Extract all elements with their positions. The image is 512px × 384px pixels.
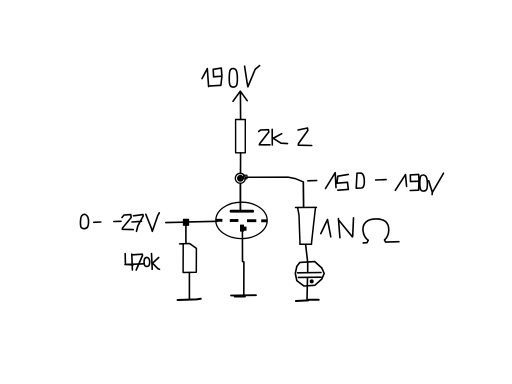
wire R3 to capacitor C1 [306, 244, 308, 261]
wire node down to R2 [185, 225, 187, 243]
label 1M ohm [321, 218, 399, 243]
wire anode node to output branch [246, 177, 303, 181]
node B (grid junction dot) [183, 219, 188, 225]
wire node to tube plate [239, 184, 241, 212]
wire cathode to ground [242, 231, 244, 295]
ground (R2) [178, 299, 201, 300]
wire capacitor to ground [306, 277, 309, 300]
label -150 - 190V (output swing) [308, 173, 444, 195]
resistor R1 2k2 [236, 120, 246, 153]
label 190V (supply voltage) [202, 66, 260, 87]
label 0 - -27V (grid bias) [80, 213, 159, 232]
triode anode plate [231, 210, 253, 213]
triode grid (dashed) [216, 219, 267, 222]
ground (capacitor) [296, 300, 319, 301]
label 2k 2 [259, 128, 312, 146]
label 470k [125, 254, 160, 271]
supply arrow [233, 91, 247, 119]
capacitor C1 (electrolytic, circled) [295, 262, 324, 286]
wire resistor to anode node [240, 153, 242, 174]
resistor R3 1M [296, 207, 317, 244]
wire bias to grid node [166, 221, 184, 223]
node A (anode junction dot) [235, 173, 247, 183]
wire R2 to ground [188, 273, 190, 300]
triode V1 envelope [216, 202, 267, 238]
ground (cathode) [231, 294, 256, 296]
wire node to grid [189, 220, 218, 223]
triode cathode [240, 225, 247, 232]
resistor R2 470k [180, 244, 197, 273]
